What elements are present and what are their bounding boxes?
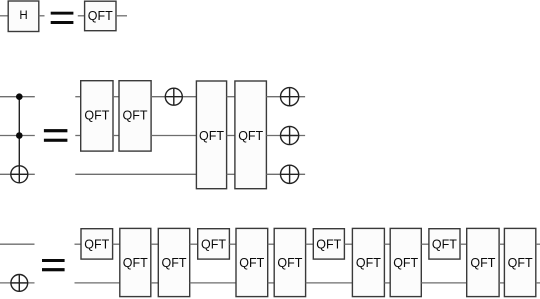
svg-text:QFT: QFT — [199, 129, 224, 143]
wire q0 — [344, 243, 352, 245]
svg-text:QFT: QFT — [470, 256, 495, 270]
control vertical line — [18, 97, 20, 183]
svg-text:QFT: QFT — [239, 256, 264, 270]
gate QFT (q0-q1) #2 — [119, 81, 151, 151]
wire q0 — [113, 243, 120, 245]
gate QFT small #1 — [81, 229, 113, 259]
wire q1 — [151, 135, 196, 137]
wire q0 — [151, 243, 159, 245]
wire q0 — [0, 96, 35, 98]
svg-text:QFT: QFT — [123, 256, 148, 270]
wire q1 — [421, 282, 466, 284]
wire q1 — [0, 282, 35, 284]
wire q0 — [190, 243, 198, 245]
wire q1 — [268, 282, 275, 284]
CNOT target q1 (right) — [281, 126, 299, 144]
wire q0 — [499, 243, 504, 245]
CNOT target q0 (mid) — [165, 88, 182, 105]
gate QFT (q0-q1) #1 — [81, 81, 113, 151]
wire q1 — [75, 282, 120, 284]
wire q0 — [75, 96, 80, 98]
wire q2 — [227, 173, 235, 175]
wire — [39, 15, 45, 17]
wire q0 — [306, 243, 314, 245]
gate QFT (q1-q2 tall) #2 — [235, 81, 267, 189]
wire q0 — [266, 96, 305, 98]
wire q1 — [190, 282, 236, 284]
gate QFT tall #2 — [158, 228, 189, 296]
gate QFT tall #4 — [274, 228, 305, 296]
gate QFT tall #8 — [504, 228, 535, 296]
gate H — [8, 1, 39, 32]
wire q0 — [0, 243, 35, 245]
control dot q0 — [16, 93, 23, 100]
gate QFT small #2 — [198, 229, 230, 259]
svg-text:QFT: QFT — [238, 129, 263, 143]
wire q0 — [229, 243, 236, 245]
wire — [116, 15, 127, 17]
wire q0 — [384, 243, 390, 245]
CNOT target q1 (left) — [11, 275, 28, 292]
wire — [78, 15, 85, 17]
svg-text:QFT: QFT — [201, 238, 226, 252]
wire q1 — [306, 282, 353, 284]
svg-text:QFT: QFT — [508, 256, 533, 270]
gate QFT — [85, 1, 116, 31]
equals sign — [44, 129, 68, 142]
gate QFT tall #1 — [120, 228, 151, 296]
svg-text:QFT: QFT — [88, 9, 113, 23]
equals sign — [51, 12, 74, 24]
gate QFT (q1-q2 tall) #1 — [196, 81, 226, 189]
wire q0 — [75, 243, 82, 245]
svg-text:H: H — [19, 10, 27, 22]
wire q1 — [499, 282, 504, 284]
wire q1 — [536, 282, 540, 284]
equals sign — [42, 259, 65, 271]
svg-text:QFT: QFT — [393, 256, 418, 270]
gate QFT small #4 — [429, 229, 460, 259]
control dot q1 — [16, 132, 23, 139]
svg-text:QFT: QFT — [277, 256, 302, 270]
svg-text:QFT: QFT — [162, 256, 187, 270]
gate QFT tall #5 — [352, 228, 384, 296]
wire q0 — [536, 243, 540, 245]
wire q0 — [151, 96, 196, 98]
wire q1 — [113, 135, 119, 137]
svg-text:QFT: QFT — [84, 238, 109, 252]
wire q0 — [421, 243, 429, 245]
gate QFT tall #6 — [390, 228, 421, 296]
gate QFT small #3 — [313, 229, 344, 259]
wire q0 — [268, 243, 275, 245]
wire q0 — [227, 96, 235, 98]
wire q2 — [0, 173, 35, 175]
CNOT target q0 (right) — [281, 88, 299, 106]
gate QFT tall #7 — [467, 228, 499, 296]
wire q1 — [75, 135, 80, 137]
svg-text:QFT: QFT — [356, 256, 381, 270]
wire q1 — [151, 282, 159, 284]
svg-text:QFT: QFT — [84, 109, 109, 123]
svg-text:QFT: QFT — [432, 238, 457, 252]
wire q2 — [75, 173, 196, 175]
CNOT target q2 — [11, 166, 28, 183]
gate QFT tall #3 — [236, 228, 268, 296]
wire — [0, 15, 8, 17]
wire q1 — [384, 282, 390, 284]
svg-text:QFT: QFT — [316, 238, 341, 252]
CNOT target q2 (right) — [281, 165, 299, 183]
wire q1 — [266, 135, 305, 137]
wire q0 — [113, 96, 119, 98]
svg-text:QFT: QFT — [123, 109, 148, 123]
wire q1 — [0, 135, 35, 137]
wire q2 — [266, 173, 305, 175]
wire q0 — [460, 243, 467, 245]
wire q1 — [227, 135, 235, 137]
